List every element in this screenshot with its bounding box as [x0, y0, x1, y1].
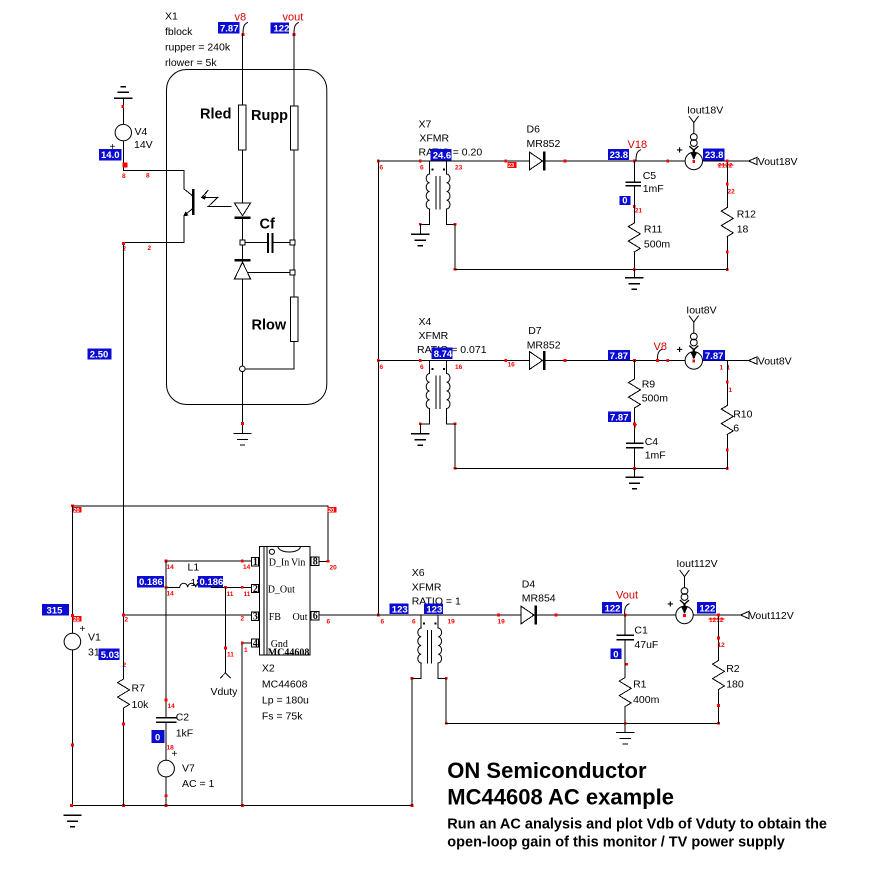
Vduty antenna [221, 673, 231, 678]
svg-text:122: 122 [274, 23, 290, 34]
svg-text:rupper = 240k: rupper = 240k [165, 42, 231, 54]
svg-text:10k: 10k [132, 699, 150, 711]
wire node circle to ground [242, 372, 244, 434]
output tag Vout18V [749, 157, 758, 165]
svg-text:X6: X6 [412, 567, 425, 579]
svg-text:14: 14 [167, 564, 175, 571]
svg-text:D_Out: D_Out [268, 585, 295, 596]
svg-text:20: 20 [328, 508, 334, 514]
svg-text:16: 16 [455, 364, 463, 371]
resistor R7 [123, 615, 125, 679]
value box 23.8 right [703, 148, 725, 160]
current source Iout18V [685, 117, 702, 170]
svg-text:20: 20 [330, 565, 338, 572]
svg-text:12: 12 [718, 642, 726, 649]
svg-text:22: 22 [728, 189, 736, 196]
svg-text:Iout18V: Iout18V [687, 105, 723, 117]
ground 18V [633, 270, 635, 278]
node Vout tag [625, 604, 630, 615]
svg-text:FB: FB [269, 612, 282, 623]
node vout tag [294, 23, 299, 34]
capacitor C1 [624, 615, 626, 635]
value box 7.87 left8v [608, 350, 630, 361]
resistor Rlow [290, 297, 298, 342]
svg-text:MC44608: MC44608 [268, 648, 310, 659]
svg-text:122: 122 [699, 604, 715, 615]
svg-text:Vduty: Vduty [211, 686, 239, 698]
transformer X7 [420, 161, 455, 224]
svg-text:14: 14 [168, 703, 176, 710]
value box 23.8 left [608, 149, 629, 160]
svg-text:21: 21 [635, 208, 643, 215]
pin 2 box [251, 584, 258, 592]
svg-text:X2: X2 [262, 663, 275, 675]
svg-text:Fs = 75k: Fs = 75k [262, 711, 303, 723]
svg-text:14.0: 14.0 [101, 150, 120, 161]
ground under fblock [234, 434, 251, 446]
svg-text:Rupp: Rupp [251, 108, 288, 124]
svg-text:XFMR: XFMR [419, 133, 449, 145]
svg-text:0: 0 [613, 649, 618, 660]
18V bus wire [378, 160, 748, 162]
value box 14.0 [99, 149, 122, 161]
value box 7.87 at v8 [218, 22, 240, 33]
svg-text:R10: R10 [733, 409, 752, 421]
svg-text:180: 180 [726, 679, 744, 691]
subcircuit block X1 fblock outline [167, 70, 327, 405]
svg-text:1: 1 [729, 387, 733, 394]
svg-text:6: 6 [412, 619, 416, 626]
net 8 junction red square [122, 162, 127, 167]
svg-text:Vin: Vin [291, 558, 305, 569]
svg-text:315: 315 [47, 605, 64, 616]
svg-text:47uF: 47uF [634, 639, 658, 651]
resistor R10 [726, 361, 728, 406]
svg-text:14: 14 [243, 564, 251, 571]
svg-text:500m: 500m [644, 239, 671, 251]
svg-text:rlower = 5k: rlower = 5k [165, 57, 217, 69]
svg-text:123: 123 [392, 605, 408, 616]
svg-text:23.8: 23.8 [705, 150, 724, 161]
svg-text:D7: D7 [528, 325, 542, 337]
svg-text:23: 23 [455, 165, 463, 172]
node V8 tag [657, 349, 662, 360]
current source Iout112V [676, 571, 693, 624]
svg-text:+: + [677, 344, 683, 356]
ground 112V [624, 723, 626, 732]
value box 7.87 right8v [703, 350, 725, 361]
svg-text:23.8: 23.8 [610, 150, 629, 161]
wire node B down to node C square [293, 245, 295, 270]
svg-text:vout: vout [283, 12, 304, 24]
svg-text:1: 1 [244, 647, 248, 654]
svg-text:16: 16 [508, 362, 516, 369]
svg-text:C2: C2 [176, 712, 190, 724]
svg-text:123: 123 [426, 605, 442, 616]
X7 primary ground [419, 224, 421, 234]
svg-text:19: 19 [448, 619, 456, 626]
svg-text:AC = 1: AC = 1 [182, 778, 215, 790]
opto transistor Q [192, 189, 194, 215]
svg-text:11: 11 [227, 591, 234, 598]
value box 122 left [602, 602, 622, 614]
svg-text:500m: 500m [642, 393, 669, 405]
8V ground bus [455, 468, 727, 470]
X6 primary return to bottom bus [411, 678, 413, 805]
pin 8 Vin wire [319, 560, 328, 562]
ground 8V [633, 469, 635, 478]
svg-text:8.74: 8.74 [434, 349, 453, 360]
value box 5.03 [99, 649, 120, 660]
svg-text:0.186: 0.186 [139, 577, 163, 588]
svg-text:Cf: Cf [260, 217, 275, 233]
bottom ground bus [72, 805, 412, 807]
svg-text:7.87: 7.87 [705, 351, 724, 362]
light arrows [202, 191, 232, 207]
svg-text:0: 0 [155, 732, 160, 743]
net 14 wire: L1 junction to pin1 [166, 560, 251, 562]
pin 3 box [251, 612, 258, 620]
value box 0 at C2 [152, 730, 165, 743]
wire LED to node A [242, 219, 244, 240]
svg-text:1kF: 1kF [176, 728, 194, 740]
svg-text:+: + [677, 145, 683, 157]
svg-text:400m: 400m [633, 694, 660, 706]
svg-text:4: 4 [253, 638, 258, 649]
resistor R2 [718, 615, 720, 661]
wire V4 to opto collector (net 8) [123, 141, 184, 171]
value box 0.186 right [198, 576, 223, 588]
svg-text:1212: 1212 [709, 617, 724, 624]
net 11 wire L1 to pin2 [212, 586, 252, 588]
svg-text:6: 6 [380, 364, 384, 371]
svg-text:6: 6 [733, 423, 739, 435]
svg-text:6: 6 [313, 611, 318, 622]
svg-text:6: 6 [380, 165, 384, 172]
svg-text:R7: R7 [132, 683, 146, 695]
node v8 tag [243, 23, 248, 34]
svg-text:2: 2 [148, 245, 152, 252]
svg-text:R12: R12 [737, 209, 756, 221]
svg-text:+: + [172, 749, 178, 760]
value box 315 [42, 604, 69, 615]
svg-text:open-loop gain of this monitor: open-loop gain of this monitor / TV powe… [447, 835, 785, 851]
svg-text:8: 8 [122, 173, 126, 180]
wire opto emitter left (net 2) [124, 242, 185, 244]
svg-text:Rled: Rled [200, 107, 231, 123]
svg-text:Vout112V: Vout112V [749, 610, 794, 622]
X2 label text [262, 663, 309, 723]
wire V1 top [71, 506, 73, 634]
svg-text:2.50: 2.50 [90, 349, 109, 360]
svg-text:11: 11 [227, 652, 234, 659]
svg-text:8: 8 [146, 173, 150, 180]
ground above V4 (flipped) [115, 87, 132, 99]
value box 122 right [697, 602, 716, 614]
wire zener to node C [247, 272, 289, 274]
node A square [240, 240, 245, 245]
svg-text:R2: R2 [726, 663, 740, 675]
value box 123 right [424, 604, 443, 615]
svg-text:7.87: 7.87 [220, 23, 239, 34]
pin 8 box [311, 557, 319, 565]
svg-text:6: 6 [420, 364, 424, 371]
value box 0 at C5 [620, 196, 631, 205]
node V18 tag [636, 150, 641, 161]
svg-text:7.87: 7.87 [610, 412, 629, 423]
svg-text:V4: V4 [135, 126, 148, 138]
value box 123 left [390, 604, 409, 615]
svg-text:R1: R1 [633, 679, 647, 691]
svg-text:20: 20 [73, 508, 79, 514]
svg-text:C5: C5 [643, 170, 657, 182]
value box 2.50 [87, 348, 111, 359]
svg-text:X7: X7 [419, 119, 432, 131]
svg-text:R9: R9 [642, 379, 656, 391]
X4 secondary return wire [454, 424, 456, 469]
svg-text:D6: D6 [527, 124, 541, 136]
wire Rlow down and left to node circle [245, 342, 294, 370]
svg-text:R11: R11 [644, 224, 663, 236]
wire V7 to bus [165, 777, 167, 806]
resistor R1 [624, 640, 626, 678]
svg-text:D_In: D_In [269, 558, 290, 569]
svg-text:XFMR: XFMR [412, 582, 442, 594]
pin 4 Gnd wire [242, 643, 251, 806]
value box 8.74 [432, 348, 453, 359]
resistor R9 [633, 361, 635, 380]
svg-text:V7: V7 [182, 763, 195, 775]
svg-text:MC44608: MC44608 [262, 679, 308, 691]
wire zener anode down [242, 279, 244, 366]
svg-text:X1: X1 [165, 11, 178, 23]
svg-text:Iout8V: Iout8V [686, 305, 716, 317]
svg-text:v8: v8 [235, 12, 247, 24]
diode D6 [529, 151, 545, 170]
pin 4 box [251, 639, 258, 647]
svg-text:7: 7 [634, 424, 638, 431]
svg-text:X4: X4 [419, 316, 432, 328]
pin 1 box [251, 558, 258, 566]
ground bottom-left [64, 815, 81, 827]
wire Rupp to node B [293, 150, 295, 240]
svg-text:11: 11 [244, 591, 251, 598]
svg-text:5.03: 5.03 [101, 650, 120, 661]
wire v8 down to Rled [242, 34, 244, 105]
diode D4 [521, 605, 537, 624]
svg-text:MR852: MR852 [527, 340, 561, 352]
svg-text:D4: D4 [522, 579, 536, 591]
svg-text:MR854: MR854 [522, 593, 556, 605]
zener diode (vertical, pointing up) [242, 245, 244, 259]
svg-text:2: 2 [241, 616, 245, 623]
svg-text:1: 1 [720, 365, 724, 372]
svg-text:6: 6 [327, 619, 331, 626]
capacitor C4 [627, 442, 643, 444]
svg-text:14V: 14V [134, 139, 153, 151]
wire C2 to V7 [165, 722, 167, 760]
value box 7.87 mid8v [608, 411, 631, 422]
svg-text:18: 18 [737, 224, 749, 236]
svg-text:Vout18V: Vout18V [758, 156, 798, 168]
X6 secondary return wire [445, 678, 447, 723]
source V7 [158, 760, 175, 777]
net 20 rail V1 to Vin [72, 506, 328, 561]
value box 0 at C1 [611, 648, 622, 659]
node B square [290, 240, 295, 245]
svg-text:8: 8 [313, 557, 318, 568]
node C square [290, 270, 295, 275]
svg-text:19: 19 [498, 619, 506, 626]
svg-text:fblock: fblock [165, 26, 193, 38]
resistor Rled [239, 105, 247, 150]
svg-text:2: 2 [253, 584, 258, 595]
svg-text:Iout112V: Iout112V [676, 558, 717, 570]
X4 primary ground [419, 424, 421, 434]
IC X2 MC44608 body [260, 546, 310, 655]
value box 122 at vout [271, 23, 289, 34]
svg-text:C1: C1 [634, 625, 648, 637]
wire V1 bottom to bus [71, 650, 73, 806]
X1 label text [165, 11, 231, 70]
8V bus wire [378, 360, 748, 362]
svg-text:2: 2 [125, 617, 129, 624]
svg-text:6: 6 [420, 165, 424, 172]
resistor Rupp [290, 106, 298, 150]
svg-text:+: + [667, 599, 673, 611]
svg-text:Run an AC analysis and plot Vd: Run an AC analysis and plot Vdb of Vduty… [447, 816, 827, 832]
source V1 [64, 633, 81, 650]
svg-text:14: 14 [167, 591, 175, 598]
X7 secondary return wire [454, 224, 456, 269]
svg-text:C4: C4 [645, 436, 659, 448]
svg-text:MR852: MR852 [527, 138, 561, 150]
transformer X6 [412, 615, 447, 678]
resistor R11 [633, 186, 635, 223]
18V ground bus [455, 269, 727, 271]
current source Iout8V [685, 316, 702, 369]
wire Rled to LED [242, 150, 244, 203]
svg-text:1mF: 1mF [645, 450, 666, 462]
svg-text:24.6: 24.6 [433, 150, 452, 161]
112V ground bus [446, 722, 718, 724]
svg-text:MC44608 AC example: MC44608 AC example [447, 785, 674, 810]
net 2 wire to FB pin3 [124, 614, 252, 616]
wire gnd to V4 [122, 98, 124, 124]
svg-text:+: + [80, 624, 86, 635]
wire node C to Rlow [293, 275, 295, 297]
112V bus wire (Out net) [319, 614, 748, 616]
svg-text:2122: 2122 [718, 163, 733, 170]
value box 24.6 [431, 149, 452, 160]
svg-text:1mF: 1mF [643, 183, 664, 195]
svg-text:0: 0 [622, 196, 627, 207]
svg-text:6: 6 [381, 619, 385, 626]
capacitor C5 [633, 161, 635, 182]
svg-text:23: 23 [508, 163, 514, 169]
svg-text:Vout8V: Vout8V [758, 356, 792, 368]
svg-text:V8: V8 [654, 341, 667, 353]
svg-text:0.186: 0.186 [200, 577, 224, 588]
source V4 [115, 124, 131, 140]
svg-text:V1: V1 [88, 632, 101, 644]
feeder wire node 6 vertical [377, 161, 379, 615]
output tag Vout112V [741, 611, 750, 619]
svg-text:XFMR: XFMR [419, 330, 449, 342]
transformer X4 [420, 361, 455, 424]
svg-text:7.87: 7.87 [610, 351, 629, 362]
svg-text:V18: V18 [628, 139, 648, 151]
svg-text:Lp = 180u: Lp = 180u [262, 695, 309, 707]
wire vout down to Rupp [293, 34, 295, 106]
svg-text:122: 122 [605, 604, 621, 615]
pin 6 box [311, 612, 319, 620]
svg-text:L1: L1 [188, 562, 200, 574]
net 2 long vertical wire [123, 243, 125, 616]
svg-text:1: 1 [253, 557, 258, 568]
capacitor C2 [165, 587, 167, 716]
svg-text:20: 20 [73, 617, 79, 623]
value box 0.186 left [137, 576, 164, 588]
node circle [240, 366, 246, 372]
svg-text:Vout: Vout [616, 590, 638, 602]
svg-text:Rlow: Rlow [252, 318, 287, 334]
Vduty probe wire [224, 587, 226, 673]
resistor R12 [726, 161, 728, 208]
svg-text:Out: Out [293, 612, 308, 623]
opto LED diode [234, 203, 250, 216]
svg-text:ON Semiconductor: ON Semiconductor [447, 758, 647, 783]
svg-text:3: 3 [253, 612, 258, 623]
output tag Vout8V [749, 357, 758, 365]
diode D7 [529, 351, 545, 370]
